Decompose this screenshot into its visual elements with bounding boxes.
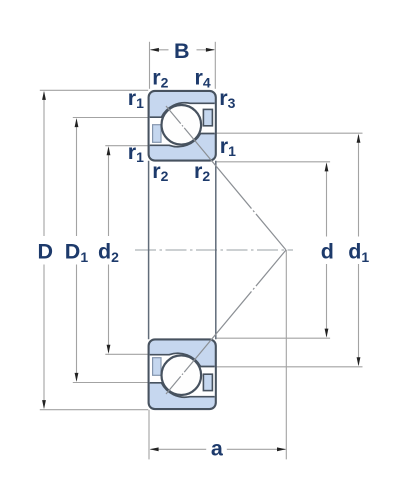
centerline (bearing axis, dash-dot): [135, 249, 293, 251]
extension line D bottom: [40, 409, 148, 411]
extension line B left: [149, 42, 151, 89]
arrowhead D down: [42, 400, 46, 409]
svg-text:r1: r1: [220, 134, 236, 159]
wire: bore silhouette line left (connects sections): [148, 161, 150, 339]
svg-text:r4: r4: [195, 65, 211, 90]
extension line d2 bottom: [105, 353, 148, 355]
arrowhead D up: [42, 91, 46, 100]
svg-text:B: B: [174, 39, 190, 63]
svg-text:r2: r2: [152, 159, 168, 184]
ball: [162, 105, 202, 145]
extension line a left: [148, 410, 150, 460]
dimension line d: [326, 164, 328, 336]
svg-text:r1: r1: [128, 86, 144, 111]
extension line a right (drop from load-center apex): [285, 250, 287, 459]
dimension line a: [150, 448, 285, 450]
outer ring raceway boundary: [150, 103, 215, 117]
extension line d bottom: [217, 337, 331, 339]
inner ring raceway boundary: [150, 134, 215, 147]
extension line d2 top: [105, 145, 148, 147]
svg-text:d1: d1: [348, 239, 369, 265]
arrowhead D1 down: [75, 373, 79, 382]
cage segment left: [153, 125, 161, 143]
arrowhead d1 up: [357, 134, 361, 143]
dimension line d2: [108, 148, 110, 353]
dimension line D1: [76, 120, 78, 381]
arrowhead B left: [150, 48, 159, 52]
dimension line D: [43, 93, 45, 408]
svg-text:r2: r2: [152, 65, 168, 90]
wire: bore silhouette line right (connects sections): [215, 161, 217, 339]
arrowhead d2 down: [107, 345, 111, 354]
extension line d1 top: [217, 132, 363, 134]
svg-text:d: d: [321, 239, 334, 263]
extension line D1 top: [73, 117, 148, 119]
arrowhead d down: [325, 329, 329, 338]
svg-text:D: D: [38, 239, 54, 263]
svg-text:r1: r1: [128, 140, 144, 165]
outer+inner ring body (rounded square section): [149, 91, 216, 161]
arrowhead B right: [206, 48, 215, 52]
svg-text:r3: r3: [219, 86, 235, 111]
cage segment right: [203, 109, 212, 125]
dimension line B: [151, 49, 215, 51]
bearing section lower (mirror of upper): [149, 250, 286, 409]
svg-text:D1: D1: [65, 239, 89, 265]
arrowhead d up: [325, 162, 329, 171]
raceway channel (white gap between rings): [150, 103, 215, 147]
bearing section upper (cross-section through axis): [149, 91, 286, 250]
extension line d1 bottom: [217, 366, 363, 368]
extension line B right: [214, 42, 216, 89]
arrowhead d2 up: [107, 146, 111, 155]
arrowhead a right: [277, 447, 286, 451]
svg-text:d2: d2: [98, 239, 119, 265]
extension line d top: [217, 161, 331, 163]
arrowhead a left: [150, 447, 159, 451]
dimension line d1: [358, 135, 360, 365]
extension line D1 bottom: [73, 382, 148, 384]
extension line D top: [40, 89, 148, 91]
contact angle line (to load center): [166, 106, 286, 250]
svg-text:r2: r2: [194, 159, 210, 184]
arrowhead d1 down: [357, 357, 361, 366]
arrowhead D1 up: [75, 118, 79, 127]
svg-text:a: a: [211, 437, 224, 461]
